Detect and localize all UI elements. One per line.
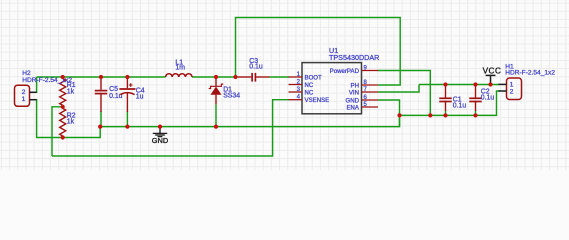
- junction D1-cathode on SW node: [214, 75, 218, 79]
- svg-text:NC: NC: [305, 89, 314, 96]
- svg-text:C5: C5: [109, 86, 118, 93]
- connector H2 HDR-F-2.54_1x2: [15, 85, 30, 106]
- wire: GND pin drop: [378, 100, 400, 127]
- svg-text:1: 1: [22, 96, 26, 103]
- junction C2-bottom on right GND rail: [473, 113, 477, 117]
- U1 pin 9 PowerPAD: [362, 70, 379, 72]
- junction D1-anode on GND rail: [214, 125, 218, 129]
- diode D1 (schottky SS34): [215, 77, 217, 86]
- junction R2-bottom on GND wire: [61, 135, 65, 139]
- junction C4-top on VOUT rail: [125, 75, 129, 79]
- capacitor C3: [238, 76, 251, 78]
- resistor R2: [60, 107, 66, 138]
- junction PowerPAD drop on right GND rail: [428, 113, 432, 117]
- svg-text:1m: 1m: [175, 64, 185, 71]
- svg-text:2: 2: [510, 89, 514, 96]
- supply symbol VCC: [486, 74, 496, 76]
- U1 pin 4 VSENSE: [289, 99, 303, 101]
- capacitor C2: [475, 85, 477, 98]
- capacitor C4 (polarized): [126, 77, 128, 88]
- junction GND pin drop on right GND rail: [397, 113, 401, 117]
- op-amp U1 TPS5430DDAR box: [302, 63, 362, 114]
- junction VCC symbol on VCC rail: [488, 82, 492, 86]
- U1 pin 1 BOOT: [289, 76, 303, 78]
- svg-text:HDR-F-2.54_1x2: HDR-F-2.54_1x2: [505, 70, 555, 77]
- junction C2-top on VCC rail: [473, 82, 477, 86]
- svg-text:0.1u: 0.1u: [453, 102, 467, 109]
- junction C4-bottom on GND rail: [125, 125, 129, 129]
- junction C1-top on VCC rail: [443, 82, 447, 86]
- svg-text:BOOT: BOOT: [305, 74, 323, 81]
- svg-text:VSENSE: VSENSE: [305, 97, 330, 104]
- wire: right bottom rail to H1 pin2: [400, 91, 500, 115]
- wire: C4 bottom lead (green part): [126, 111, 128, 127]
- svg-text:TPS5430DDAR: TPS5430DDAR: [329, 53, 379, 62]
- svg-text:PH: PH: [351, 82, 359, 89]
- connector H1 HDR-F-2.54_1x2: [507, 78, 522, 100]
- svg-text:PowerPAD: PowerPAD: [330, 68, 360, 75]
- wire: feedback tap R1/R2 midpoint: [52, 107, 63, 156]
- wire: C1 bottom lead (green part): [445, 111, 447, 116]
- inductor L1: [166, 74, 192, 77]
- svg-text:0.1u: 0.1u: [249, 63, 263, 70]
- svg-text:1: 1: [510, 81, 514, 88]
- svg-text:VIN: VIN: [349, 89, 359, 96]
- junction R1/R2 feedback node: [61, 105, 65, 109]
- junction SW node riser: [233, 75, 237, 79]
- wire: PowerPAD to right bottom rail: [378, 71, 431, 116]
- svg-text:1k: 1k: [67, 119, 75, 126]
- svg-text:1k: 1k: [67, 88, 75, 95]
- junction R1-top on VOUT rail: [61, 75, 65, 79]
- junction C5-top on VOUT rail: [99, 75, 103, 79]
- wire: H2 pin2 riser: [35, 77, 38, 92]
- wire: VCC rail: [419, 84, 499, 86]
- U1 pin 3 NC: [289, 91, 303, 93]
- svg-text:GND: GND: [152, 136, 168, 145]
- wire: D1 anode lead (green part): [215, 104, 217, 126]
- wire: SW node riser and top loop to PH: [236, 18, 401, 86]
- resistor R1: [60, 77, 66, 107]
- ground symbol GND: [159, 127, 161, 134]
- junction GND symbol tap: [158, 125, 162, 129]
- capacitor C5: [100, 77, 102, 90]
- wire: VIN to VCC rail: [378, 85, 419, 93]
- svg-text:NC: NC: [305, 82, 314, 89]
- wire: H2 pin1 drop to ground line: [36, 100, 100, 138]
- svg-text:GND: GND: [345, 97, 359, 104]
- svg-text:H2: H2: [22, 70, 31, 77]
- svg-text:1u: 1u: [136, 94, 144, 101]
- wire: C5 bottom lead (green part): [100, 111, 102, 127]
- capacitor C1: [445, 85, 447, 98]
- svg-text:VCC: VCC: [483, 66, 502, 75]
- wire: feedback bottom run to VSENSE: [52, 100, 289, 156]
- U1 pin 7 VIN: [362, 91, 379, 93]
- junction C5-bottom on GND rail: [98, 125, 102, 129]
- junction C1-bottom on right GND rail: [443, 113, 447, 117]
- wire: ground rail (left): [100, 115, 399, 126]
- svg-text:SS34: SS34: [223, 93, 240, 100]
- U1 pin 5 ENA: [362, 106, 379, 108]
- svg-text:0.1u: 0.1u: [481, 95, 495, 102]
- U1 pin 8 PH: [362, 84, 379, 86]
- svg-text:HDR-F-2.54_1x2: HDR-F-2.54_1x2: [22, 77, 72, 84]
- U1 pin 2 NC: [289, 84, 303, 86]
- svg-text:ENA: ENA: [346, 104, 359, 111]
- wire: C2 bottom lead (green part): [475, 111, 477, 116]
- wire: main output rail (VOUT net): [37, 76, 166, 78]
- U1 pin 6 GND: [362, 99, 379, 101]
